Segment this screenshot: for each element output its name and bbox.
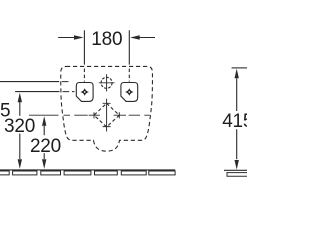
- svg-text:415: 415: [222, 111, 247, 132]
- svg-text:220: 220: [30, 136, 61, 157]
- svg-text:5: 5: [0, 100, 10, 121]
- svg-text:180: 180: [91, 29, 122, 50]
